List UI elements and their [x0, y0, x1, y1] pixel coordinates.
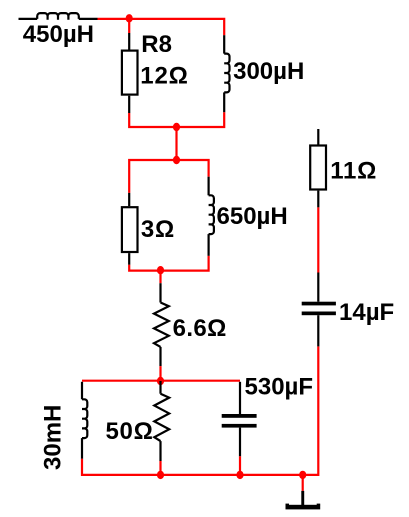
svg-text:3Ω: 3Ω	[141, 216, 175, 243]
capacitor 14uF (plates)	[302, 302, 336, 316]
svg-text:50Ω: 50Ω	[106, 418, 154, 445]
wire rail4 (top of bottom box, red)	[82, 380, 240, 382]
wire red stub to rail4	[159, 366, 161, 381]
capacitor 530uF (plates)	[222, 414, 257, 428]
resistor 3 ohm (box)	[122, 207, 138, 252]
wire black lead below R8	[128, 96, 130, 113]
wire red ground stub	[302, 475, 304, 491]
wire connector J2 to J3	[175, 127, 177, 160]
wire black lead to 3ohm	[128, 193, 130, 206]
resistor R8 12 ohm (box)	[122, 51, 138, 95]
svg-text:530µF: 530µF	[245, 373, 314, 400]
wire black lead to 30mH	[81, 382, 83, 400]
node junction J6	[157, 471, 164, 479]
wire black lead to 530uF	[239, 382, 241, 414]
wire black top stub of 11ohm	[317, 129, 319, 146]
wire black lead J5 to 50ohm	[159, 381, 161, 394]
node junction J7	[236, 471, 243, 479]
svg-text:R8: R8	[141, 31, 172, 58]
resistor 11 ohm (box)	[310, 146, 326, 190]
svg-text:450µH: 450µH	[23, 21, 94, 48]
wire black lead below 11ohm	[317, 191, 319, 208]
wire black lead below 14uF	[317, 315, 319, 346]
wire black lead below 30mH	[81, 438, 83, 459]
wire box2 bottom net (red U)	[129, 256, 208, 271]
wire stub from node down to R8	[128, 18, 130, 33]
node junction J1	[126, 14, 133, 22]
wire red stub 530uF to bottom rail	[239, 456, 241, 475]
wire black lead below 50ohm	[159, 441, 161, 461]
wire black lead below 650uH	[208, 234, 210, 256]
svg-text:30mH: 30mH	[40, 405, 67, 470]
node junction J2	[173, 123, 180, 131]
wire red stub below J4	[159, 271, 161, 284]
wire black lead to 650uH	[208, 177, 210, 196]
svg-text:11Ω: 11Ω	[330, 157, 377, 184]
wire bottom rail net (red, includes right riser)	[82, 346, 318, 475]
wire box2 top net (red)	[129, 160, 208, 193]
wire black lead below 530uF	[239, 428, 241, 457]
inductor 450uH (horizontal coil symbol with leads)	[19, 13, 98, 20]
wire box1 bottom net (red U)	[129, 112, 224, 127]
wire black lead below 6.6ohm	[159, 347, 161, 366]
resistor 6.6 ohm (zigzag)	[154, 303, 169, 347]
wire black lead to R8	[128, 33, 130, 50]
svg-text:6.6Ω: 6.6Ω	[173, 315, 227, 342]
wire red stub 50ohm to bottom rail	[159, 461, 161, 475]
svg-text:650µH: 650µH	[217, 203, 288, 230]
node junction J5	[157, 377, 164, 385]
inductor 300uH (vertical coil)	[224, 54, 229, 93]
wire top net horizontal to right corner	[98, 19, 225, 35]
svg-text:14µF: 14µF	[339, 299, 394, 326]
wire black lead to 6.6ohm	[159, 283, 161, 302]
resistor 50 ohm (zigzag)	[154, 394, 169, 441]
svg-text:12Ω: 12Ω	[140, 63, 188, 90]
wire black lead to 300uH	[223, 35, 225, 53]
node junction J8	[299, 471, 306, 479]
wire red mid segment right branch	[317, 207, 319, 272]
svg-text:300µH: 300µH	[233, 58, 304, 85]
wire black lead to 14uF	[317, 273, 319, 302]
node junction J3	[173, 156, 180, 164]
wire black lead below 3ohm	[128, 253, 130, 265]
ground symbol	[286, 491, 321, 510]
node junction J4	[157, 266, 164, 274]
inductor 30mH (vertical coil)	[82, 399, 87, 438]
inductor 650uH (vertical coil)	[209, 195, 214, 234]
wire black lead below 300uH	[223, 92, 225, 112]
